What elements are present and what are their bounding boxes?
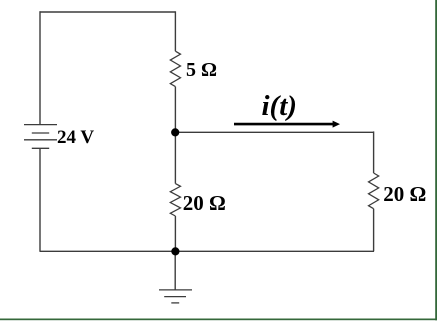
wire bottom (left corner through node B to right branch) [40,250,375,252]
svg-text:24 V: 24 V [57,127,94,148]
wire middle mid (R1 bottom through node A to resistor R2) [174,87,176,184]
svg-text:5 Ω: 5 Ω [186,59,217,81]
resistor R3 (20 ohm, right vertical zigzag) [369,173,379,209]
value label 20 ohm (right) [383,182,426,206]
wire right lower (R3 bottom to bottom wire) [373,209,375,252]
wire right upper (corner down to resistor R3) [373,131,375,173]
ground [159,290,192,303]
wire left lower (battery - terminal down to bottom wire) [39,148,41,251]
label i(t) [262,90,297,122]
wire node A to right branch [175,131,374,133]
node B (junction dot at bottom) [171,247,179,255]
value label 5 ohm [186,59,217,81]
svg-text:20 Ω: 20 Ω [183,191,226,215]
voltage source V1 (battery, 24 V) [24,125,57,149]
wire top (from left branch to middle branch) [40,11,176,13]
resistor R2 (20 ohm, middle vertical zigzag) [170,184,180,216]
wire middle lower (R2 bottom to node B) [174,216,176,251]
wire ground stub [174,251,176,290]
wire left upper (top corner down to battery + terminal) [39,11,41,124]
value label 20 ohm (middle) [183,191,226,215]
svg-text:i(t): i(t) [262,90,297,122]
wire middle upper (top wire down to resistor R1) [174,11,176,51]
value label 24 V [57,127,94,148]
svg-text:20 Ω: 20 Ω [383,182,426,206]
resistor R1 (5 ohm, vertical zigzag) [170,51,180,86]
current arrow i(t) [234,121,340,128]
node A (junction dot at center) [171,128,179,136]
